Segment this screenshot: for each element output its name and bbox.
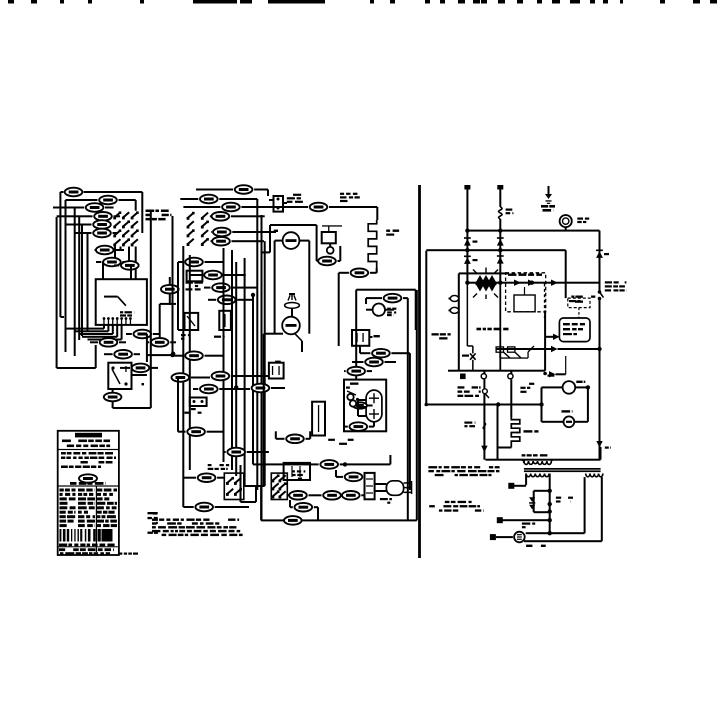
oven lamp symbol bbox=[285, 303, 300, 309]
wire bbox=[193, 388, 198, 390]
oval label L3 bbox=[86, 203, 104, 212]
lock switch label bbox=[292, 470, 295, 472]
wire bbox=[114, 264, 119, 266]
plug prongs bbox=[404, 482, 412, 484]
wire bbox=[147, 354, 173, 356]
oval label M8 bbox=[204, 271, 222, 280]
fuse link 3 bbox=[497, 257, 504, 264]
door sense label bbox=[571, 296, 574, 298]
oval label M10 bbox=[218, 296, 236, 305]
fuse link 2B bbox=[596, 251, 603, 258]
oval label M17 bbox=[310, 203, 328, 212]
right note2 text bbox=[445, 501, 450, 503]
wire corners bottom left bbox=[240, 465, 242, 502]
oval label N13 bbox=[286, 435, 304, 444]
wire bbox=[204, 287, 211, 289]
wire bbox=[120, 367, 130, 369]
oven lamp right bbox=[560, 215, 572, 227]
cam switch circles bbox=[347, 394, 353, 400]
wire left bus v7 bbox=[87, 233, 89, 332]
oven lamp circle bbox=[282, 317, 300, 335]
cooling box bbox=[355, 290, 357, 380]
wire bbox=[497, 405, 499, 460]
wire bbox=[338, 260, 341, 262]
bake line bbox=[510, 371, 512, 375]
filament secondary 2 bbox=[586, 474, 590, 477]
oven door switch label bbox=[181, 334, 186, 336]
wire bbox=[290, 506, 293, 508]
wire stub bbox=[516, 432, 520, 433]
oval label N5 bbox=[347, 367, 365, 376]
oval label L8 bbox=[103, 258, 121, 267]
oval label L9 bbox=[121, 261, 139, 270]
supply terminal N bbox=[499, 188, 501, 207]
oval label M6 bbox=[212, 237, 230, 246]
wire bbox=[183, 477, 196, 479]
wire bbox=[263, 334, 265, 486]
oval label M21 bbox=[284, 516, 302, 525]
wire left bus v6 bbox=[81, 225, 83, 337]
wire bbox=[183, 206, 220, 208]
contact arrow 1 bbox=[514, 280, 521, 286]
interlock switch boxes bbox=[496, 347, 503, 352]
oval label M19 bbox=[289, 491, 307, 500]
top browner label bbox=[274, 230, 278, 232]
oval label M3 bbox=[222, 203, 240, 212]
wire bbox=[178, 431, 186, 433]
side tall box bbox=[312, 402, 325, 436]
bus1 bbox=[467, 230, 599, 232]
side boxes bbox=[284, 463, 310, 480]
right note text bbox=[428, 466, 437, 468]
wire bbox=[178, 329, 185, 331]
oval label L14 bbox=[132, 364, 150, 373]
power cord connector box bbox=[365, 473, 375, 499]
wire bbox=[183, 506, 193, 508]
wire bbox=[90, 341, 98, 343]
oval label N1 bbox=[351, 269, 369, 278]
table bottom text bbox=[59, 544, 67, 547]
wire bbox=[105, 207, 114, 209]
thermostat terminals bbox=[103, 318, 104, 325]
wire bbox=[104, 353, 113, 355]
sec1 left lead bbox=[525, 474, 527, 486]
oval label M7 bbox=[185, 258, 203, 267]
monitor switch contact bbox=[598, 290, 602, 294]
wire bbox=[75, 232, 92, 234]
magnetron wires right bbox=[526, 532, 585, 534]
barcode row bbox=[60, 529, 62, 542]
oval label L12 bbox=[100, 338, 118, 347]
oval label L4 bbox=[94, 212, 112, 221]
oval label M13 bbox=[212, 372, 230, 381]
electronic oven control label bbox=[146, 210, 155, 213]
selector switch SW2 bbox=[187, 213, 193, 219]
wire bbox=[276, 438, 285, 440]
surface unit switch SW1 bbox=[114, 212, 120, 218]
heater label bbox=[524, 430, 533, 432]
lamps circle bbox=[564, 416, 575, 427]
wire bbox=[115, 249, 124, 251]
oval label L6 bbox=[93, 229, 111, 238]
probe receptacle box bbox=[187, 271, 203, 282]
contact arrow 2 bbox=[528, 280, 535, 286]
wire bbox=[361, 494, 364, 496]
relay innards bbox=[112, 369, 120, 384]
wire bbox=[499, 219, 501, 283]
lock motor label bbox=[328, 439, 335, 441]
wire into relay bbox=[545, 336, 553, 338]
wire bbox=[271, 387, 285, 389]
wire bbox=[173, 355, 183, 357]
wire bbox=[231, 375, 269, 377]
bake element label bbox=[464, 422, 472, 424]
oval label M14 bbox=[200, 385, 218, 394]
bus3 bbox=[467, 282, 599, 284]
heater element bbox=[511, 418, 520, 448]
oval label M12 bbox=[172, 373, 190, 382]
wire bbox=[425, 369, 427, 371]
cool fan motor bbox=[373, 304, 385, 316]
wire bottom left bbox=[57, 367, 96, 369]
wire bbox=[231, 215, 265, 217]
panel edge connector 2 bbox=[450, 307, 458, 313]
hv diode label bbox=[556, 497, 561, 499]
wire bbox=[84, 191, 143, 193]
magnetron label bbox=[526, 545, 532, 547]
panel edge connector 1 bbox=[450, 296, 458, 302]
probe jack box bbox=[185, 313, 199, 330]
oval label N11 bbox=[342, 491, 360, 500]
wire bbox=[219, 198, 257, 200]
contact bbox=[543, 372, 547, 376]
note label bbox=[153, 512, 158, 515]
oval label M18 bbox=[195, 503, 213, 512]
oven thermostat box bbox=[96, 279, 147, 325]
thermostat label bbox=[120, 311, 123, 313]
wire bbox=[112, 389, 114, 392]
wire bbox=[366, 309, 373, 311]
wire bbox=[360, 352, 370, 354]
lock motor marks bbox=[369, 398, 379, 399]
bus4 bbox=[426, 404, 541, 406]
wire bbox=[358, 399, 366, 401]
broil element bbox=[368, 220, 377, 273]
wire bbox=[102, 262, 104, 279]
wire bbox=[210, 231, 213, 233]
oval label L16 bbox=[161, 285, 179, 294]
wire bbox=[180, 198, 198, 200]
wire bbox=[336, 476, 343, 478]
equipment ground bbox=[548, 186, 550, 194]
door lock mechanism box bbox=[344, 380, 386, 432]
table oval bbox=[79, 474, 97, 482]
wire left bus v3 bbox=[65, 200, 67, 352]
oval label L5 bbox=[93, 220, 111, 229]
hv cap wire bbox=[500, 519, 550, 521]
oval label M5 bbox=[213, 228, 231, 237]
door latch plug label bbox=[293, 194, 301, 196]
wire bbox=[352, 361, 364, 363]
wire top m1 bbox=[196, 189, 233, 191]
thermal switch box bbox=[190, 398, 207, 407]
clock circle bbox=[283, 232, 300, 249]
wire bbox=[159, 304, 161, 337]
oval label N3 bbox=[372, 349, 390, 358]
oval label N8 bbox=[323, 491, 341, 500]
interlock monitor label bbox=[605, 281, 612, 283]
oval label L13 bbox=[114, 350, 132, 359]
thermal switch label bbox=[191, 408, 196, 410]
table header bbox=[58, 485, 119, 486]
wire row 464 bbox=[253, 463, 319, 465]
wire bbox=[211, 240, 213, 242]
hv diode triangles bbox=[529, 497, 535, 502]
oval label M9 bbox=[212, 283, 230, 292]
wire left bus v1 bbox=[56, 217, 58, 368]
wire bbox=[60, 191, 63, 193]
oval label L7 bbox=[96, 246, 114, 255]
door latch contact block A bbox=[224, 473, 244, 499]
wire bbox=[53, 207, 84, 209]
magnetron terminal bbox=[496, 536, 513, 538]
thermostat switch lever bbox=[118, 297, 126, 306]
hv cap label bbox=[522, 523, 530, 525]
fan motor circle bbox=[563, 381, 576, 394]
thermal cutout label bbox=[432, 333, 439, 335]
interlock zigzag bbox=[499, 352, 501, 358]
oval label M22 bbox=[252, 384, 270, 393]
broil element label bbox=[386, 230, 390, 232]
wire to broil bbox=[329, 206, 377, 208]
wire B verticals bbox=[182, 246, 184, 507]
probe jack box2 bbox=[219, 311, 231, 330]
secondary interlock label bbox=[458, 386, 465, 388]
fuse link 2 bbox=[497, 239, 504, 246]
smoke eliminator label bbox=[340, 193, 344, 195]
wire bbox=[114, 215, 121, 217]
down arrow bbox=[481, 446, 487, 453]
wire left bus v5 bbox=[78, 216, 80, 340]
oval label M16 bbox=[227, 448, 245, 457]
wire dash label bbox=[369, 336, 372, 338]
wire bbox=[66, 224, 92, 226]
oven relay dashed box bbox=[506, 273, 546, 312]
oval label L1 bbox=[65, 188, 83, 197]
oval label L11 bbox=[134, 330, 152, 339]
cool fan label bbox=[387, 308, 391, 310]
control transformer bbox=[476, 275, 496, 282]
smoke eliminator circle bbox=[327, 247, 334, 254]
relay inner box bbox=[514, 295, 535, 312]
power cord plug bbox=[386, 481, 403, 496]
wire fanout bbox=[66, 328, 105, 330]
wiring code rows bbox=[60, 489, 64, 492]
control panel label bbox=[477, 328, 482, 331]
wire bbox=[96, 261, 101, 263]
right page outer box left bbox=[425, 251, 427, 404]
oval label M23 bbox=[198, 473, 216, 482]
lamps label bbox=[562, 410, 571, 412]
wire bbox=[113, 232, 119, 234]
oval label N4 bbox=[365, 358, 383, 367]
oval label N9 bbox=[320, 460, 338, 469]
wire bottom of browner bbox=[264, 333, 283, 335]
wire bbox=[146, 334, 148, 362]
top browner inner box bbox=[274, 241, 276, 334]
wire bbox=[126, 333, 132, 335]
wire bbox=[119, 199, 136, 201]
wire fanout bbox=[88, 339, 122, 341]
arrow down right bbox=[596, 441, 602, 448]
fuse link BK bbox=[464, 239, 471, 246]
wire mid vertical bbox=[172, 216, 174, 355]
oval label M20 bbox=[295, 503, 313, 512]
wire bbox=[288, 494, 290, 496]
oval label L17 bbox=[104, 393, 122, 402]
wire bbox=[317, 260, 318, 262]
wire bbox=[190, 274, 203, 276]
BK contact bbox=[470, 353, 476, 359]
door latch switch label bbox=[208, 464, 212, 466]
table side rotated text bbox=[148, 512, 154, 514]
oval label M2 bbox=[200, 195, 218, 204]
wire left bus v2 bbox=[59, 192, 61, 317]
wire dashed bbox=[578, 308, 580, 318]
wire bbox=[339, 272, 349, 274]
wire bbox=[344, 370, 346, 372]
oval label M15 bbox=[187, 427, 205, 436]
oven thermal label bbox=[529, 383, 534, 385]
wire bbox=[208, 299, 216, 301]
hv transformer primary bbox=[524, 461, 529, 464]
control panel box bbox=[458, 273, 460, 370]
magnetron bbox=[514, 532, 525, 543]
relay labels bbox=[508, 274, 516, 276]
oval label N2 bbox=[384, 294, 402, 303]
oval label L15 bbox=[151, 338, 169, 347]
wire bbox=[340, 463, 391, 465]
wire bbox=[247, 451, 269, 453]
wire bbox=[340, 494, 342, 496]
fuse link BR bbox=[464, 257, 471, 264]
fan-lamp circuit bbox=[541, 387, 543, 421]
latch top box bbox=[352, 330, 369, 346]
bake relay box bbox=[108, 363, 131, 389]
wire left bus v4 bbox=[74, 208, 76, 357]
wire bbox=[376, 268, 378, 273]
oval label M4 bbox=[212, 212, 230, 221]
wire long to M17 bbox=[241, 206, 308, 208]
door unlatch box bbox=[269, 363, 284, 379]
dashed link relay bbox=[544, 284, 546, 319]
thermal cutout dashed box bbox=[568, 298, 590, 308]
top cropped text row bbox=[8, 0, 14, 4]
hv secondary 1 bbox=[526, 474, 531, 477]
wire bottom rail bbox=[261, 519, 417, 521]
latch label bbox=[350, 383, 358, 385]
door latch contact block B bbox=[271, 473, 287, 499]
wire bbox=[147, 341, 149, 343]
hv diode branch bbox=[533, 491, 535, 512]
monitor vertical bbox=[599, 231, 601, 291]
oval label M11 bbox=[185, 351, 203, 360]
hv line bbox=[549, 474, 551, 534]
supply terminal L1 bbox=[466, 188, 468, 283]
bottom bus bbox=[485, 459, 600, 461]
wire bbox=[66, 199, 98, 201]
wire fanout bbox=[82, 336, 117, 338]
wire bbox=[57, 215, 93, 217]
transformer core bbox=[524, 468, 601, 470]
lock cam oval bbox=[353, 402, 367, 408]
fuse bbox=[499, 207, 502, 219]
door latch plug bbox=[274, 196, 284, 212]
wire bbox=[191, 377, 210, 379]
interlock switch row bbox=[497, 348, 551, 350]
power cord label bbox=[380, 498, 388, 500]
smoke eliminator box bbox=[322, 232, 336, 243]
oval label M1 bbox=[235, 185, 253, 194]
panel terminals bbox=[460, 374, 466, 380]
legend table frame and title bbox=[58, 431, 119, 555]
transformer label bbox=[522, 454, 526, 456]
table underline dashes bbox=[118, 553, 122, 555]
wire bbox=[178, 261, 184, 263]
interlock sw line bbox=[483, 371, 485, 375]
oval label N10 bbox=[345, 473, 363, 482]
wire bbox=[344, 426, 348, 428]
wire bbox=[565, 250, 567, 298]
page divider line bbox=[418, 185, 421, 558]
top browner outer box bbox=[270, 224, 317, 226]
wire bbox=[366, 297, 382, 299]
oval label N12 bbox=[318, 257, 336, 266]
lock motor stadium bbox=[366, 390, 382, 422]
wire fanout bbox=[79, 333, 113, 335]
power relay box bbox=[559, 318, 590, 342]
wire bbox=[94, 249, 97, 251]
oval label L2 bbox=[99, 196, 117, 205]
oval label N6 bbox=[350, 422, 368, 431]
bus2 bbox=[426, 249, 565, 251]
wire bbox=[254, 189, 268, 191]
wire fanout bbox=[75, 330, 109, 332]
relay label bbox=[142, 383, 145, 385]
probe label bbox=[186, 282, 193, 284]
contact arrow 3 bbox=[551, 280, 558, 286]
lamp wire bbox=[291, 308, 293, 316]
note text block bbox=[152, 519, 158, 521]
